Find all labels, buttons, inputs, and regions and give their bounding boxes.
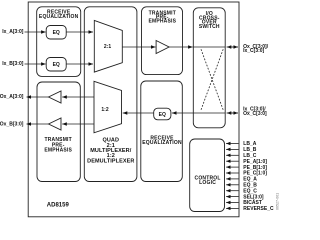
mux 2:1 trapezoid bbox=[94, 20, 122, 72]
wire Ix_A into EQ1 bbox=[25, 31, 46, 33]
wire EQ2 to 2:1 mux bbox=[66, 63, 93, 65]
block QUAD MULTIPLEXER/DEMULTIPLEXER bbox=[84, 7, 137, 182]
svg-text:1:2: 1:2 bbox=[101, 107, 108, 113]
svg-text:REVERSE_C: REVERSE_C bbox=[243, 206, 274, 212]
bidirectional wire Ox_C/Ix_C (top) bbox=[227, 46, 238, 48]
wire mux output to top buffer bbox=[122, 46, 155, 48]
svg-text:Ox_B[3:0]: Ox_B[3:0] bbox=[0, 122, 24, 128]
svg-text:Ix_A[3:0]: Ix_A[3:0] bbox=[2, 29, 23, 35]
wire crossover to EQ3 bbox=[172, 112, 193, 114]
block CONTROL LOGIC bbox=[190, 139, 225, 212]
block TRANSMIT PRE-EMPHASIS (top) bbox=[142, 7, 183, 75]
chip outline AD8159 bbox=[28, 2, 239, 217]
svg-text:EQ: EQ bbox=[53, 30, 60, 36]
svg-text:EMPHASIS: EMPHASIS bbox=[44, 147, 72, 153]
wire top buffer to crossover switch bbox=[169, 46, 193, 48]
svg-text:SWITCH: SWITCH bbox=[199, 24, 220, 30]
svg-text:2:1: 2:1 bbox=[104, 44, 111, 50]
svg-text:EQUALIZATION: EQUALIZATION bbox=[142, 140, 182, 146]
wire inside crossover (top) bbox=[193, 46, 225, 48]
EQ box 2 bbox=[46, 58, 66, 72]
svg-text:Ox_C[3:0]: Ox_C[3:0] bbox=[243, 111, 267, 117]
wire demux to buffer U3 bbox=[62, 123, 94, 125]
block RECEIVE EQUALIZATION (top) bbox=[37, 7, 81, 77]
svg-text:EQ: EQ bbox=[159, 112, 166, 118]
svg-text:Ox_A[3:0]: Ox_A[3:0] bbox=[0, 94, 24, 100]
wire Ix_B into EQ2 bbox=[25, 63, 46, 65]
demux 1:2 trapezoid bbox=[94, 81, 122, 133]
block I/O CROSS-OVER SWITCH bbox=[193, 8, 225, 128]
svg-text:EQUALIZATION: EQUALIZATION bbox=[39, 14, 79, 20]
crossover dashed X bbox=[201, 49, 223, 110]
wire inside crossover (bottom) bbox=[193, 112, 225, 114]
wire buffer U2 to Ox_A pad bbox=[27, 96, 49, 98]
svg-text:AD8159: AD8159 bbox=[47, 202, 70, 208]
EQ box 3 bbox=[154, 108, 171, 120]
block TRANSMIT PRE-EMPHASIS (bottom) bbox=[37, 82, 80, 182]
svg-text:Ix_C[3:0]: Ix_C[3:0] bbox=[243, 48, 264, 54]
buffer U2 (Ox_A, left-pointing triangle) bbox=[49, 91, 62, 103]
svg-text:06527-001: 06527-001 bbox=[276, 193, 280, 210]
control wires LB_A..REVERSE_C bbox=[226, 144, 238, 209]
block RECEIVE EQUALIZATION (bottom) bbox=[141, 81, 183, 182]
svg-text:LOGIC: LOGIC bbox=[199, 180, 216, 186]
wire demux to buffer U2 bbox=[62, 96, 94, 98]
wire buffer U3 to Ox_B pad bbox=[27, 123, 49, 125]
bidirectional wire Ix_C/Ox_C (bottom) bbox=[227, 112, 238, 114]
svg-text:EQ: EQ bbox=[53, 62, 60, 68]
buffer U3 (Ox_B, left-pointing triangle) bbox=[49, 118, 62, 130]
svg-text:Ix_B[3:0]: Ix_B[3:0] bbox=[2, 61, 23, 67]
wire EQ1 to 2:1 mux bbox=[66, 31, 93, 33]
buffer U1 (top, right-pointing triangle) bbox=[156, 41, 169, 54]
wire EQ3 to 1:2 demux bbox=[123, 112, 154, 114]
svg-text:DEMULTIPLEXER: DEMULTIPLEXER bbox=[87, 158, 134, 164]
svg-text:EMPHASIS: EMPHASIS bbox=[148, 19, 176, 25]
EQ box 1 bbox=[46, 26, 66, 40]
